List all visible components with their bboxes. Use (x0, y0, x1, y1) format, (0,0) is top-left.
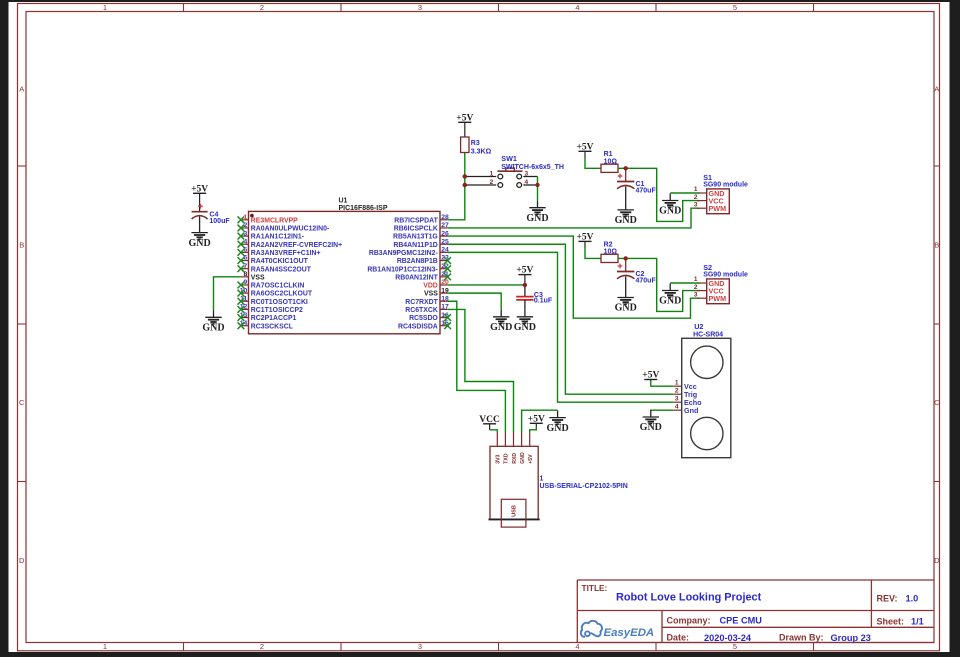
svg-text:3: 3 (694, 291, 698, 298)
svg-text:1: 1 (540, 475, 544, 482)
svg-text:3: 3 (418, 642, 422, 651)
svg-text:D: D (19, 556, 25, 565)
svg-text:RB6ICSPCLK: RB6ICSPCLK (394, 226, 438, 233)
svg-text:2: 2 (694, 284, 698, 291)
svg-text:RA6OSC2CLKOUT: RA6OSC2CLKOUT (251, 291, 313, 298)
svg-text:RC7RXDT: RC7RXDT (405, 299, 438, 306)
svg-text:RC0T1OSOT1CKI: RC0T1OSOT1CKI (251, 299, 308, 306)
svg-text:USB: USB (511, 505, 517, 517)
svg-text:2: 2 (675, 387, 679, 394)
svg-text:3.3KΩ: 3.3KΩ (471, 148, 492, 155)
svg-text:RC5SDO: RC5SDO (409, 315, 438, 322)
svg-text:RA7OSC1CLKIN: RA7OSC1CLKIN (251, 283, 305, 290)
svg-text:GND: GND (615, 215, 637, 226)
svg-text:3V3: 3V3 (496, 454, 502, 463)
svg-text:RE3MCLRVPP: RE3MCLRVPP (251, 217, 298, 224)
svg-text:4: 4 (675, 403, 679, 410)
svg-text:Sheet:: Sheet: (877, 616, 905, 626)
svg-text:Drawn By:: Drawn By: (779, 633, 824, 643)
svg-text:PWM: PWM (709, 204, 727, 213)
svg-text:1: 1 (675, 379, 679, 386)
svg-text:SG90 module: SG90 module (703, 182, 748, 189)
svg-text:CPE CMU: CPE CMU (720, 615, 763, 625)
svg-text:U2: U2 (694, 322, 703, 331)
svg-text:3: 3 (418, 3, 422, 12)
svg-text:C: C (934, 398, 940, 407)
svg-text:RB3AN9PGMC12IN2-: RB3AN9PGMC12IN2- (369, 250, 439, 257)
svg-text:100uF: 100uF (209, 218, 230, 225)
svg-text:HC-SR04: HC-SR04 (693, 331, 723, 338)
svg-text:GND: GND (546, 423, 568, 434)
svg-text:B: B (934, 241, 939, 250)
svg-text:GND: GND (490, 322, 512, 333)
svg-text:RC1T1OSICCP2: RC1T1OSICCP2 (251, 307, 303, 314)
svg-text:RA0AN0ULPWUC12IN0-: RA0AN0ULPWUC12IN0- (251, 226, 330, 233)
svg-text:RB7ICSPDAT: RB7ICSPDAT (394, 217, 438, 224)
svg-text:10Ω: 10Ω (604, 158, 618, 165)
svg-text:TXD: TXD (504, 453, 510, 464)
svg-text:R3: R3 (471, 140, 480, 147)
svg-text:4: 4 (575, 3, 579, 12)
svg-text:RA5AN4SSC2OUT: RA5AN4SSC2OUT (251, 266, 312, 273)
svg-text:1: 1 (103, 642, 107, 651)
svg-text:EasyEDA: EasyEDA (604, 627, 655, 639)
svg-text:+5V: +5V (528, 454, 534, 464)
svg-text:RB2AN8P1B: RB2AN8P1B (397, 258, 438, 265)
svg-text:GND: GND (520, 452, 526, 464)
svg-text:TITLE:: TITLE: (582, 583, 608, 593)
svg-text:Company:: Company: (667, 615, 711, 625)
svg-text:8: 8 (244, 271, 248, 278)
svg-text:USB-SERIAL-CP2102-5PIN: USB-SERIAL-CP2102-5PIN (540, 483, 628, 490)
svg-text:1/1: 1/1 (911, 616, 924, 626)
svg-text:A: A (19, 84, 24, 93)
svg-text:RC2P1ACCP1: RC2P1ACCP1 (251, 315, 297, 322)
svg-text:RB4AN11P1D: RB4AN11P1D (393, 242, 437, 249)
svg-text:1: 1 (490, 170, 494, 177)
svg-text:SG90 module: SG90 module (703, 272, 748, 279)
svg-text:SW1: SW1 (501, 154, 517, 163)
svg-text:RC4SDISDA: RC4SDISDA (398, 323, 438, 330)
svg-text:GND: GND (188, 238, 210, 249)
svg-text:3: 3 (675, 395, 679, 402)
svg-text:RA3AN3VREF+C1IN+: RA3AN3VREF+C1IN+ (251, 250, 321, 257)
svg-text:GND: GND (615, 303, 637, 314)
svg-text:10Ω: 10Ω (604, 249, 618, 256)
svg-text:R1: R1 (604, 151, 613, 158)
svg-text:GND: GND (659, 206, 681, 217)
svg-text:470uF: 470uF (636, 188, 657, 195)
svg-text:B: B (19, 241, 24, 250)
svg-text:RA4T0CKIC1OUT: RA4T0CKIC1OUT (251, 258, 309, 265)
svg-text:GND: GND (526, 213, 548, 224)
svg-text:Date:: Date: (667, 633, 690, 643)
svg-text:Robot Love Looking Project: Robot Love Looking Project (616, 591, 762, 603)
svg-text:5: 5 (733, 3, 737, 12)
svg-text:1.0: 1.0 (906, 593, 919, 603)
svg-text:2: 2 (260, 642, 264, 651)
svg-text:RXD: RXD (512, 453, 518, 464)
svg-text:1: 1 (103, 3, 107, 12)
svg-text:REV:: REV: (877, 593, 898, 603)
svg-text:GND: GND (640, 422, 662, 433)
svg-text:3: 3 (525, 170, 529, 177)
svg-text:GND: GND (514, 322, 536, 333)
svg-text:RB1AN10P1CC12IN3-: RB1AN10P1CC12IN3- (367, 266, 438, 273)
svg-text:0.1uF: 0.1uF (534, 298, 553, 305)
svg-text:GND: GND (202, 323, 224, 334)
svg-text:3: 3 (694, 201, 698, 208)
svg-text:Group 23: Group 23 (831, 633, 871, 643)
svg-text:1: 1 (694, 186, 698, 193)
svg-text:VSS: VSS (251, 274, 265, 281)
svg-text:R2: R2 (604, 241, 613, 248)
svg-text:VDD: VDD (423, 283, 438, 290)
svg-text:VSS: VSS (424, 291, 438, 298)
svg-text:4: 4 (525, 179, 529, 186)
svg-text:1: 1 (694, 276, 698, 283)
svg-text:SWITCH-6x6x5_TH: SWITCH-6x6x5_TH (501, 164, 564, 171)
svg-text:RA2AN2VREF-CVREFC2IN+: RA2AN2VREF-CVREFC2IN+ (251, 242, 342, 249)
svg-text:2: 2 (490, 179, 494, 186)
svg-text:A: A (934, 84, 939, 93)
svg-text:Gnd: Gnd (684, 406, 698, 415)
svg-text:PIC16F886-ISP: PIC16F886-ISP (339, 205, 388, 212)
svg-text:GND: GND (659, 296, 681, 307)
svg-text:C: C (19, 398, 25, 407)
svg-text:PWM: PWM (709, 294, 727, 303)
svg-text:RB5AN13T1G: RB5AN13T1G (393, 234, 438, 241)
svg-text:RB0AN12INT: RB0AN12INT (395, 274, 438, 281)
svg-text:2: 2 (694, 194, 698, 201)
svg-text:U1: U1 (339, 198, 348, 205)
svg-text:RC6TXCK: RC6TXCK (405, 307, 438, 314)
svg-text:D: D (934, 556, 940, 565)
svg-text:RA1AN1C12IN1-: RA1AN1C12IN1- (251, 234, 305, 241)
svg-text:2020-03-24: 2020-03-24 (704, 633, 752, 643)
svg-text:RC3SCKSCL: RC3SCKSCL (251, 323, 293, 330)
svg-text:470uF: 470uF (636, 278, 657, 285)
svg-text:2: 2 (260, 3, 264, 12)
